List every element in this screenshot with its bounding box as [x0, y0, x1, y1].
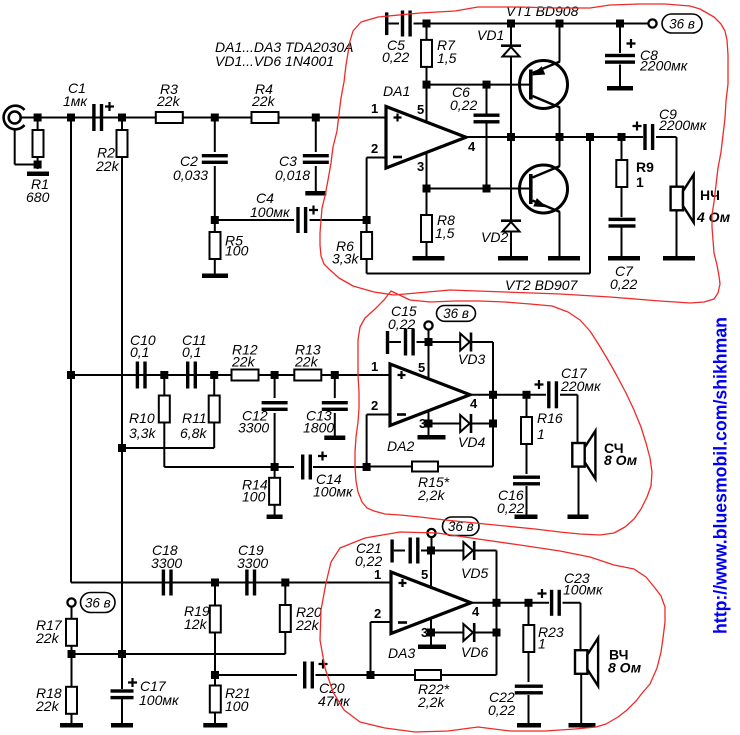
- svg-text:1: 1: [374, 567, 381, 582]
- svg-text:0,22: 0,22: [488, 702, 515, 718]
- svg-text:100мк: 100мк: [313, 484, 354, 500]
- svg-text:1,5: 1,5: [435, 225, 455, 241]
- svg-text:2: 2: [374, 606, 381, 621]
- svg-text:0,22: 0,22: [610, 276, 637, 292]
- svg-text:36 в: 36 в: [85, 595, 111, 610]
- svg-text:2,2k: 2,2k: [417, 694, 445, 710]
- svg-text:2: 2: [371, 398, 378, 413]
- svg-text:100мк: 100мк: [250, 204, 291, 220]
- svg-text:1мк: 1мк: [63, 93, 88, 109]
- svg-text:4: 4: [472, 604, 480, 619]
- svg-text:100мк: 100мк: [139, 692, 180, 708]
- svg-text:1: 1: [636, 174, 644, 190]
- svg-text:5: 5: [417, 102, 424, 117]
- svg-text:0,1: 0,1: [182, 344, 201, 360]
- svg-text:100: 100: [242, 489, 266, 505]
- svg-text:100: 100: [225, 243, 249, 259]
- svg-text:2200мк: 2200мк: [639, 58, 689, 74]
- svg-text:3300: 3300: [238, 420, 269, 436]
- svg-text:1: 1: [371, 101, 378, 116]
- svg-text:R9: R9: [636, 159, 654, 175]
- svg-text:VD1: VD1: [477, 27, 504, 43]
- svg-text:3,3k: 3,3k: [332, 251, 359, 267]
- svg-text:12k: 12k: [184, 616, 208, 632]
- svg-text:VT1 BD908: VT1 BD908: [506, 3, 579, 19]
- svg-text:VD5: VD5: [461, 565, 488, 581]
- svg-text:VD1...VD6 1N4001: VD1...VD6 1N4001: [215, 53, 334, 69]
- svg-text:1: 1: [537, 426, 545, 442]
- svg-text:100: 100: [225, 698, 249, 714]
- svg-text:8 Ом: 8 Ом: [604, 452, 638, 468]
- svg-text:0,22: 0,22: [450, 97, 477, 113]
- svg-text:100мк: 100мк: [563, 582, 604, 598]
- svg-text:1: 1: [371, 359, 378, 374]
- svg-text:VD6: VD6: [461, 644, 488, 660]
- svg-text:0,22: 0,22: [497, 500, 524, 516]
- svg-text:4: 4: [468, 139, 476, 154]
- svg-text:DA3: DA3: [388, 645, 415, 661]
- svg-text:36 в: 36 в: [443, 306, 469, 321]
- svg-text:22k: 22k: [156, 93, 181, 109]
- svg-text:22k: 22k: [295, 617, 320, 633]
- svg-text:5: 5: [421, 567, 428, 582]
- svg-text:VD3: VD3: [458, 351, 485, 367]
- svg-text:5: 5: [418, 360, 425, 375]
- svg-text:3,3k: 3,3k: [129, 425, 156, 441]
- svg-text:0,22: 0,22: [382, 49, 409, 65]
- svg-text:22k: 22k: [95, 158, 120, 174]
- svg-text:8 Ом: 8 Ом: [608, 660, 642, 676]
- svg-text:2: 2: [371, 141, 378, 156]
- svg-text:22k: 22k: [294, 354, 319, 370]
- svg-text:0,1: 0,1: [130, 344, 149, 360]
- svg-text:http://www.bluesmobil.com/shik: http://www.bluesmobil.com/shikhman: [711, 317, 731, 634]
- svg-text:680: 680: [26, 189, 50, 205]
- svg-text:VD4: VD4: [458, 434, 485, 450]
- svg-text:R10: R10: [129, 410, 155, 426]
- svg-text:6,8k: 6,8k: [180, 425, 207, 441]
- svg-text:3300: 3300: [151, 555, 182, 571]
- svg-text:1800: 1800: [303, 420, 334, 436]
- svg-text:DA2: DA2: [387, 438, 414, 454]
- svg-text:VD2: VD2: [481, 229, 508, 245]
- svg-text:220мк: 220мк: [560, 378, 602, 394]
- svg-text:4 Ом: 4 Ом: [696, 209, 731, 225]
- svg-text:R11: R11: [182, 410, 207, 426]
- svg-text:0,22: 0,22: [355, 553, 382, 569]
- svg-text:R16: R16: [537, 410, 563, 426]
- svg-text:22k: 22k: [35, 630, 60, 646]
- svg-text:VT2 BD907: VT2 BD907: [505, 277, 579, 293]
- svg-text:3300: 3300: [237, 555, 268, 571]
- svg-text:22k: 22k: [35, 698, 60, 714]
- svg-text:2,2k: 2,2k: [417, 487, 445, 503]
- svg-text:0,033: 0,033: [173, 167, 208, 183]
- svg-text:DA1: DA1: [383, 83, 410, 99]
- svg-text:36 в: 36 в: [669, 16, 695, 31]
- svg-text:1: 1: [538, 636, 546, 652]
- svg-text:2200мк: 2200мк: [658, 117, 708, 133]
- svg-text:0,018: 0,018: [275, 167, 310, 183]
- svg-text:22k: 22k: [251, 93, 276, 109]
- svg-text:3: 3: [417, 159, 424, 174]
- svg-text:0,22: 0,22: [388, 316, 415, 332]
- svg-text:4: 4: [470, 396, 478, 411]
- svg-text:НЧ: НЧ: [700, 187, 720, 203]
- svg-text:1,5: 1,5: [437, 50, 457, 66]
- svg-text:22k: 22k: [231, 354, 256, 370]
